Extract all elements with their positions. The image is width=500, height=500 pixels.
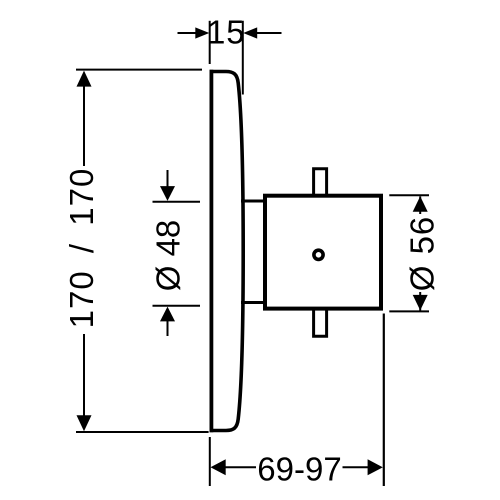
svg-text:170 / 170: 170 / 170 <box>63 168 100 329</box>
svg-text:Ø 48: Ø 48 <box>150 220 187 292</box>
svg-text:Ø 56: Ø 56 <box>404 216 441 292</box>
svg-text:15: 15 <box>207 14 246 51</box>
svg-text:69-97: 69-97 <box>257 450 341 487</box>
